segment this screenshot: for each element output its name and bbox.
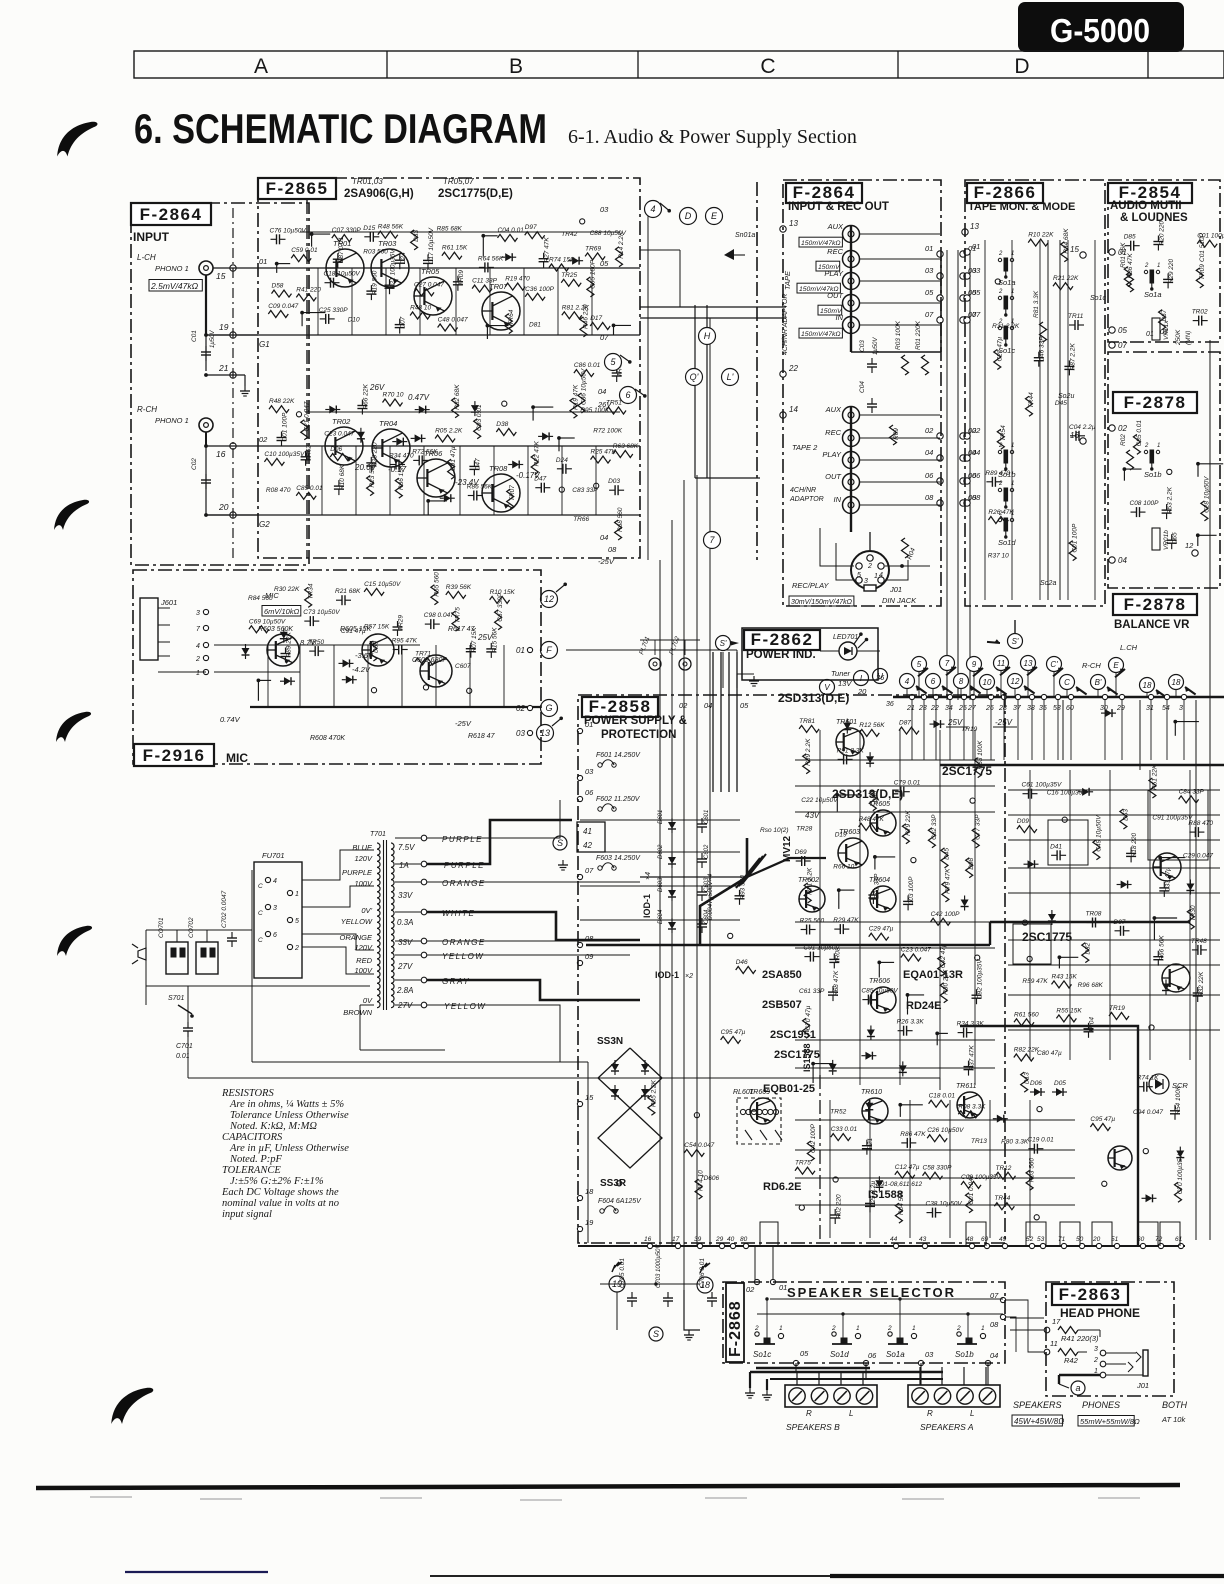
- svg-text:C: C: [258, 883, 263, 890]
- svg-text:C21 100µ35V: C21 100µ35V: [390, 249, 397, 290]
- svg-text:D15: D15: [363, 225, 375, 232]
- svg-text:2SC1775(D,E): 2SC1775(D,E): [438, 188, 513, 200]
- svg-text:EQA01-13R: EQA01-13R: [903, 969, 963, 981]
- svg-text:VR01b: VR01b: [1163, 530, 1170, 550]
- svg-text:R79 47K: R79 47K: [944, 868, 951, 894]
- svg-text:CAPACITORS: CAPACITORS: [222, 1132, 283, 1143]
- svg-text:TR12: TR12: [996, 1165, 1012, 1172]
- svg-text:TR604: TR604: [869, 877, 890, 884]
- svg-text:R08 470: R08 470: [266, 487, 291, 494]
- svg-text:IOD-1: IOD-1: [642, 894, 652, 918]
- svg-text:F-2865: F-2865: [266, 179, 329, 198]
- svg-text:1: 1: [779, 1325, 783, 1332]
- svg-text:R-CH: R-CH: [1082, 661, 1101, 670]
- svg-text:9: 9: [972, 660, 977, 669]
- svg-text:R37 10: R37 10: [988, 553, 1009, 560]
- svg-text:15: 15: [585, 1093, 594, 1102]
- svg-text:So1a: So1a: [1144, 290, 1162, 299]
- svg-text:06: 06: [925, 471, 934, 480]
- svg-text:BOTH: BOTH: [1162, 1400, 1188, 1410]
- svg-text:F-2864: F-2864: [140, 205, 203, 224]
- svg-text:C61 100µ35V: C61 100µ35V: [1022, 782, 1063, 789]
- svg-text:R603 560K: R603 560K: [258, 626, 293, 633]
- svg-text:R21 68K: R21 68K: [335, 588, 361, 595]
- svg-text:0V': 0V': [361, 906, 372, 915]
- svg-text:REC: REC: [827, 247, 843, 256]
- svg-text:So2u: So2u: [1058, 393, 1074, 400]
- svg-text:02: 02: [1118, 424, 1127, 433]
- svg-text:MIC: MIC: [226, 751, 248, 765]
- svg-text:R55 560: R55 560: [433, 572, 440, 597]
- svg-text:-23.4V: -23.4V: [455, 478, 479, 487]
- svg-text:TR44: TR44: [1028, 392, 1035, 408]
- svg-text:13: 13: [789, 219, 798, 228]
- svg-text:TR05,07: TR05,07: [443, 177, 474, 186]
- svg-text:R14 2.2K: R14 2.2K: [618, 231, 625, 259]
- svg-text:01: 01: [925, 244, 933, 253]
- svg-text:nominal value in volts at no: nominal value in volts at no: [222, 1198, 339, 1209]
- svg-text:150mV/47kΩ: 150mV/47kΩ: [801, 331, 841, 338]
- svg-text:TR09: TR09: [458, 270, 465, 286]
- svg-text:C706 0.01: C706 0.01: [699, 1258, 706, 1288]
- svg-text:R-CH: R-CH: [137, 405, 157, 414]
- svg-text:D98: D98: [968, 857, 975, 869]
- svg-text:R86 47K: R86 47K: [900, 1131, 926, 1138]
- svg-text:BLUE: BLUE: [352, 843, 373, 852]
- svg-text:2SD313(D,E): 2SD313(D,E): [778, 691, 849, 705]
- svg-text:BROWN: BROWN: [343, 1008, 372, 1017]
- svg-text:1: 1: [1011, 289, 1014, 295]
- svg-text:C04 2.2µ: C04 2.2µ: [1069, 424, 1096, 431]
- svg-text:AUDIO MUTII: AUDIO MUTII: [1110, 200, 1182, 212]
- svg-text:So2a: So2a: [1040, 580, 1056, 587]
- svg-text:R81 3.3K: R81 3.3K: [1033, 290, 1040, 318]
- svg-text:06: 06: [585, 788, 594, 797]
- svg-text:48: 48: [966, 1236, 974, 1243]
- svg-text:8: 8: [959, 677, 964, 686]
- svg-text:R96 68K: R96 68K: [1078, 982, 1104, 989]
- svg-text:18: 18: [585, 1187, 594, 1196]
- svg-text:C01 0.047: C01 0.047: [968, 1174, 975, 1204]
- svg-text:So1b: So1b: [955, 1350, 974, 1359]
- svg-text:55mW+55mW/8Ω: 55mW+55mW/8Ω: [1080, 1417, 1140, 1426]
- svg-text:52: 52: [1026, 1236, 1034, 1243]
- svg-text:ORANGE: ORANGE: [442, 879, 486, 888]
- svg-text:YELLOW: YELLOW: [341, 917, 373, 926]
- svg-text:OUT: OUT: [825, 472, 842, 481]
- svg-text:C703 1000µ50V: C703 1000µ50V: [656, 1244, 662, 1288]
- svg-text:R87 2.2K: R87 2.2K: [1069, 343, 1076, 371]
- svg-text:R70 10: R70 10: [383, 392, 404, 399]
- svg-text:SPEAKER SELECTOR: SPEAKER SELECTOR: [787, 1285, 956, 1300]
- svg-text:C607: C607: [455, 663, 471, 670]
- svg-text:REC: REC: [825, 428, 841, 437]
- svg-text:08: 08: [608, 545, 617, 554]
- svg-text:04: 04: [1118, 556, 1127, 565]
- svg-text:C10 100µ35V: C10 100µ35V: [264, 451, 305, 458]
- svg-text:6: 6: [273, 932, 277, 939]
- svg-text:43: 43: [919, 1236, 927, 1243]
- svg-text:-4.2V: -4.2V: [352, 665, 371, 674]
- svg-text:B: B: [509, 55, 523, 78]
- svg-text:INPUT: INPUT: [133, 230, 170, 244]
- svg-text:HEAD PHONE: HEAD PHONE: [1060, 1306, 1140, 1320]
- svg-text:R68 560: R68 560: [617, 507, 624, 532]
- svg-text:F: F: [546, 645, 552, 655]
- svg-text:R74 15K: R74 15K: [549, 257, 575, 264]
- svg-text:2SC1775: 2SC1775: [1022, 930, 1072, 944]
- svg-text:C62 33P: C62 33P: [931, 814, 938, 840]
- svg-text:07: 07: [972, 310, 981, 319]
- svg-text:C76 10µ50V: C76 10µ50V: [270, 227, 307, 234]
- svg-text:6-1. Audio & Power Supply Sec: 6-1. Audio & Power Supply Section: [568, 126, 857, 148]
- svg-text:AT 10k: AT 10k: [1161, 1415, 1186, 1424]
- svg-text:12: 12: [1011, 677, 1020, 686]
- svg-text:33V: 33V: [398, 891, 413, 900]
- svg-text:C03: C03: [859, 340, 866, 352]
- svg-text:-3.6V: -3.6V: [355, 651, 374, 660]
- svg-text:C77 33P: C77 33P: [975, 814, 982, 840]
- svg-text:TR03: TR03: [378, 239, 397, 248]
- svg-text:F-2916: F-2916: [143, 746, 206, 765]
- svg-text:R95 47K: R95 47K: [392, 638, 418, 645]
- svg-text:0.74V: 0.74V: [220, 715, 241, 724]
- svg-text:01: 01: [516, 646, 525, 655]
- svg-text:IS1588: IS1588: [868, 1189, 903, 1201]
- svg-text:2: 2: [1093, 1357, 1098, 1364]
- svg-text:D10: D10: [348, 316, 360, 323]
- svg-text:AUX: AUX: [825, 405, 842, 414]
- svg-text:YELLOW: YELLOW: [444, 1002, 486, 1011]
- svg-text:20: 20: [1092, 1236, 1101, 1243]
- svg-text:R18 220: R18 220: [1131, 832, 1138, 857]
- svg-text:R02 220: R02 220: [835, 1194, 842, 1219]
- svg-text:2: 2: [998, 289, 1003, 295]
- svg-text:TR04: TR04: [379, 419, 397, 428]
- svg-text:G: G: [545, 703, 552, 713]
- svg-text:03: 03: [600, 205, 609, 214]
- svg-text:2: 2: [294, 945, 299, 952]
- svg-text:34: 34: [945, 705, 953, 712]
- svg-text:19: 19: [219, 322, 229, 332]
- svg-text:TR08: TR08: [489, 464, 508, 473]
- svg-text:D67: D67: [1161, 309, 1168, 321]
- svg-text:04: 04: [925, 448, 933, 457]
- svg-text:a: a: [1075, 1383, 1080, 1393]
- svg-text:×2: ×2: [685, 973, 693, 980]
- svg-text:2: 2: [998, 511, 1003, 517]
- svg-text:F-2878: F-2878: [1124, 595, 1187, 614]
- svg-text:03: 03: [925, 1350, 934, 1359]
- svg-text:R617 47: R617 47: [448, 626, 476, 633]
- svg-text:26: 26: [985, 705, 994, 712]
- svg-text:7D606: 7D606: [700, 1175, 720, 1182]
- svg-text:150mV/47kΩ: 150mV/47kΩ: [801, 240, 841, 247]
- svg-text:C07 330P: C07 330P: [332, 227, 362, 234]
- svg-text:16: 16: [644, 1236, 652, 1243]
- svg-text:43V: 43V: [805, 811, 820, 820]
- svg-text:18: 18: [1143, 681, 1152, 690]
- svg-text:2: 2: [831, 1325, 836, 1332]
- svg-text:1: 1: [1011, 251, 1014, 257]
- svg-text:03: 03: [972, 266, 981, 275]
- svg-text:IN: IN: [834, 495, 842, 504]
- svg-text:02: 02: [972, 426, 981, 435]
- svg-text:3: 3: [1179, 705, 1183, 712]
- svg-text:14: 14: [789, 405, 798, 414]
- svg-text:R32 22K: R32 22K: [1198, 971, 1205, 997]
- svg-text:29: 29: [1116, 705, 1125, 712]
- svg-text:C09 0.047: C09 0.047: [268, 303, 298, 310]
- svg-text:F-2868: F-2868: [727, 1300, 744, 1357]
- svg-text:C48 0.047: C48 0.047: [438, 317, 468, 324]
- svg-text:TR605: TR605: [869, 801, 890, 808]
- svg-text:05: 05: [600, 259, 609, 268]
- svg-text:R608 470K: R608 470K: [310, 735, 345, 742]
- svg-text:2SC1775: 2SC1775: [942, 764, 992, 778]
- svg-text:C58 330P: C58 330P: [923, 1165, 953, 1172]
- svg-text:L-CH: L-CH: [137, 253, 156, 262]
- svg-text:06: 06: [972, 471, 981, 480]
- svg-text:1: 1: [1011, 511, 1014, 517]
- svg-text:S: S: [653, 1329, 659, 1339]
- svg-text:R48 22K: R48 22K: [269, 398, 295, 405]
- svg-text:GRAY: GRAY: [442, 977, 470, 986]
- svg-text:D91-08,611,612: D91-08,611,612: [876, 1181, 923, 1188]
- svg-text:1: 1: [856, 1325, 860, 1332]
- svg-text:D604: D604: [658, 909, 664, 924]
- svg-text:2: 2: [867, 563, 872, 570]
- svg-text:C33 47µ: C33 47µ: [1164, 867, 1171, 892]
- svg-text:C12 47µ: C12 47µ: [895, 1164, 920, 1171]
- svg-text:25V: 25V: [477, 633, 493, 642]
- svg-text:2SC1775: 2SC1775: [774, 1049, 820, 1061]
- svg-text:J:±5% G:±2% F:±1%: J:±5% G:±2% F:±1%: [230, 1176, 324, 1187]
- svg-text:08: 08: [925, 493, 934, 502]
- svg-text:1: 1: [1011, 319, 1014, 325]
- svg-text:input signal: input signal: [222, 1209, 272, 1220]
- svg-text:TR11: TR11: [1068, 313, 1084, 320]
- svg-text:25V: 25V: [947, 718, 963, 727]
- svg-text:So1d: So1d: [998, 538, 1016, 547]
- svg-text:TR13: TR13: [971, 1138, 987, 1145]
- svg-text:27V: 27V: [397, 962, 413, 971]
- svg-text:0V: 0V: [363, 996, 373, 1005]
- svg-text:INPUT & REC OUT: INPUT & REC OUT: [788, 201, 889, 213]
- svg-text:1: 1: [295, 891, 299, 898]
- svg-text:2SB507: 2SB507: [762, 999, 802, 1011]
- svg-text:R86 47K: R86 47K: [1127, 253, 1134, 279]
- svg-text:18: 18: [1172, 678, 1181, 687]
- svg-text:C98 0.047: C98 0.047: [424, 612, 454, 619]
- svg-text:R59 47K: R59 47K: [1022, 978, 1048, 985]
- svg-text:BALANCE VR: BALANCE VR: [1114, 619, 1190, 631]
- svg-text:03: 03: [516, 729, 525, 738]
- svg-text:SPEAKERS: SPEAKERS: [1013, 1400, 1062, 1410]
- svg-text:45W+45W/8Ω: 45W+45W/8Ω: [1014, 1417, 1064, 1426]
- svg-text:TR75: TR75: [455, 607, 462, 623]
- svg-text:R26 3.3K: R26 3.3K: [897, 1019, 925, 1026]
- svg-text:1A: 1A: [399, 861, 409, 870]
- svg-text:C19 0.01: C19 0.01: [1027, 1137, 1054, 1144]
- svg-text:PHONO 1: PHONO 1: [155, 264, 189, 273]
- svg-text:3: 3: [1094, 1346, 1098, 1353]
- svg-text:1µ50V: 1µ50V: [210, 330, 216, 348]
- svg-text:R61 15K: R61 15K: [442, 245, 468, 252]
- svg-text:G2: G2: [259, 520, 270, 529]
- svg-text:69: 69: [981, 1236, 989, 1243]
- svg-text:Are in ohms, ¼ Watts ± 5%: Are in ohms, ¼ Watts ± 5%: [229, 1099, 344, 1110]
- svg-text:D05: D05: [1054, 1080, 1066, 1087]
- svg-text:21: 21: [906, 705, 915, 712]
- svg-text:R82 68K: R82 68K: [454, 384, 461, 410]
- svg-text:C25 330P: C25 330P: [319, 307, 349, 314]
- svg-text:8.7V: 8.7V: [300, 638, 316, 647]
- svg-text:F-2866: F-2866: [974, 183, 1037, 202]
- svg-text:C: C: [258, 937, 263, 944]
- svg-text:C85 0.01: C85 0.01: [1136, 420, 1143, 447]
- svg-text:26V: 26V: [369, 383, 385, 392]
- svg-text:ADAPTOR: ADAPTOR: [789, 496, 824, 503]
- svg-text:35: 35: [1039, 705, 1047, 712]
- svg-text:J01: J01: [1136, 1381, 1149, 1390]
- svg-text:TR44: TR44: [994, 1195, 1010, 1202]
- svg-text:TR01,03: TR01,03: [352, 177, 383, 186]
- svg-text:26V: 26V: [597, 400, 612, 409]
- svg-text:02: 02: [746, 1285, 755, 1294]
- svg-text:04: 04: [600, 533, 608, 542]
- svg-text:08: 08: [990, 1320, 999, 1329]
- svg-text:So1b: So1b: [998, 470, 1016, 479]
- svg-text:Q': Q': [690, 372, 699, 382]
- svg-text:01: 01: [1146, 331, 1154, 338]
- svg-text:TR603: TR603: [839, 829, 860, 836]
- svg-text:2SD313(D,E): 2SD313(D,E): [832, 787, 903, 801]
- svg-text:C83 33P: C83 33P: [572, 487, 598, 494]
- svg-text:PURPLE: PURPLE: [442, 835, 483, 844]
- svg-text:PHONES: PHONES: [1082, 1400, 1120, 1410]
- svg-text:0.3A: 0.3A: [397, 918, 413, 927]
- svg-text:R39 56K: R39 56K: [446, 584, 472, 591]
- svg-text:0.47V: 0.47V: [408, 393, 430, 402]
- svg-text:37: 37: [1013, 705, 1022, 712]
- svg-text:R29 220: R29 220: [1168, 258, 1175, 283]
- svg-text:C42 100P: C42 100P: [810, 1123, 817, 1153]
- svg-text:IN: IN: [836, 313, 844, 322]
- svg-text:D06: D06: [1030, 1080, 1042, 1087]
- svg-text:D45: D45: [1055, 400, 1067, 407]
- svg-text:07: 07: [925, 310, 934, 319]
- svg-text:TR25: TR25: [561, 272, 577, 279]
- svg-text:R09: R09: [893, 428, 900, 440]
- svg-text:DIN JACK: DIN JACK: [882, 596, 917, 605]
- svg-text:C38 10µ50V: C38 10µ50V: [926, 1201, 963, 1208]
- svg-text:02: 02: [925, 426, 934, 435]
- svg-text:1: 1: [196, 670, 200, 677]
- svg-text:IOD-1: IOD-1: [655, 970, 679, 980]
- svg-text:PURPLE: PURPLE: [444, 861, 485, 870]
- svg-text:16: 16: [216, 449, 226, 459]
- svg-text:250K: 250K: [1175, 329, 1182, 346]
- svg-text:R19 470: R19 470: [505, 276, 530, 283]
- svg-text:R51 22K: R51 22K: [1151, 764, 1158, 790]
- svg-text:27: 27: [967, 705, 977, 712]
- svg-text:Tuner: Tuner: [831, 669, 851, 678]
- svg-text:D47: D47: [474, 458, 481, 470]
- svg-text:F604 6A125V: F604 6A125V: [598, 1198, 642, 1205]
- svg-text:44: 44: [890, 1236, 898, 1243]
- svg-text:33V: 33V: [398, 938, 413, 947]
- svg-text:-0.17V: -0.17V: [516, 471, 540, 480]
- svg-text:R29 47K: R29 47K: [833, 917, 859, 924]
- svg-text:C26 10µ50V: C26 10µ50V: [927, 1127, 964, 1134]
- svg-text:So1d: So1d: [830, 1350, 849, 1359]
- svg-text:So1c: So1c: [1090, 295, 1106, 302]
- svg-text:R42: R42: [1064, 1356, 1079, 1365]
- svg-text:G1: G1: [259, 340, 270, 349]
- svg-text:C18 10µ50V: C18 10µ50V: [324, 271, 361, 278]
- svg-text:Sn01a: Sn01a: [735, 232, 755, 239]
- svg-text:TR81: TR81: [799, 718, 815, 725]
- svg-text:17: 17: [672, 1236, 680, 1243]
- svg-text:H: H: [704, 331, 711, 341]
- svg-text:D46: D46: [736, 959, 748, 966]
- svg-text:R: R: [806, 1409, 812, 1418]
- svg-text:15: 15: [1070, 245, 1079, 254]
- svg-text:C': C': [1050, 660, 1058, 669]
- svg-text:R10 22K: R10 22K: [1028, 232, 1054, 239]
- svg-text:2.5mV/47kΩ: 2.5mV/47kΩ: [150, 281, 199, 291]
- svg-text:TR69: TR69: [585, 245, 601, 252]
- svg-text:C42 100P: C42 100P: [931, 911, 961, 918]
- svg-text:4CH/NR: 4CH/NR: [790, 487, 816, 494]
- svg-text:TR08: TR08: [1086, 911, 1102, 918]
- svg-text:41: 41: [583, 827, 592, 836]
- svg-text:PLAY: PLAY: [822, 450, 842, 459]
- svg-text:1: 1: [874, 573, 878, 580]
- svg-text:RED: RED: [356, 956, 372, 965]
- svg-text:Noted. P:pF: Noted. P:pF: [229, 1154, 282, 1165]
- svg-text:So1a: So1a: [998, 278, 1016, 287]
- svg-text:D03: D03: [608, 478, 620, 485]
- svg-text:04: 04: [598, 387, 606, 396]
- svg-text:YELLOW: YELLOW: [442, 952, 484, 961]
- svg-text:R41 220(3): R41 220(3): [1061, 1334, 1099, 1343]
- svg-text:CO701: CO701: [158, 917, 165, 938]
- svg-text:AUX: AUX: [827, 222, 844, 231]
- svg-text:1: 1: [1011, 481, 1014, 487]
- svg-text:F-2864: F-2864: [793, 183, 856, 202]
- svg-text:39: 39: [694, 1236, 702, 1243]
- svg-text:& LOUDNES: & LOUDNES: [1120, 212, 1188, 224]
- svg-text:TOLERANCE: TOLERANCE: [222, 1165, 281, 1176]
- svg-text:C36 10µ50V: C36 10µ50V: [580, 368, 587, 405]
- svg-text:2: 2: [887, 1325, 892, 1332]
- svg-text:R64 56K: R64 56K: [478, 255, 504, 262]
- svg-text:2SC1951: 2SC1951: [770, 1029, 816, 1041]
- svg-text:R72 100K: R72 100K: [593, 428, 623, 435]
- svg-text:4: 4: [273, 878, 277, 885]
- svg-text:C04 0.01: C04 0.01: [498, 227, 525, 234]
- svg-text:D602: D602: [658, 844, 664, 859]
- svg-text:C01: C01: [191, 330, 198, 342]
- svg-text:C67 330P: C67 330P: [497, 592, 504, 622]
- svg-text:CO702: CO702: [188, 917, 195, 938]
- svg-text:D: D: [685, 211, 692, 221]
- svg-text:D41: D41: [1050, 843, 1062, 850]
- svg-text:1µ50V: 1µ50V: [873, 337, 879, 355]
- svg-text:20: 20: [218, 502, 229, 512]
